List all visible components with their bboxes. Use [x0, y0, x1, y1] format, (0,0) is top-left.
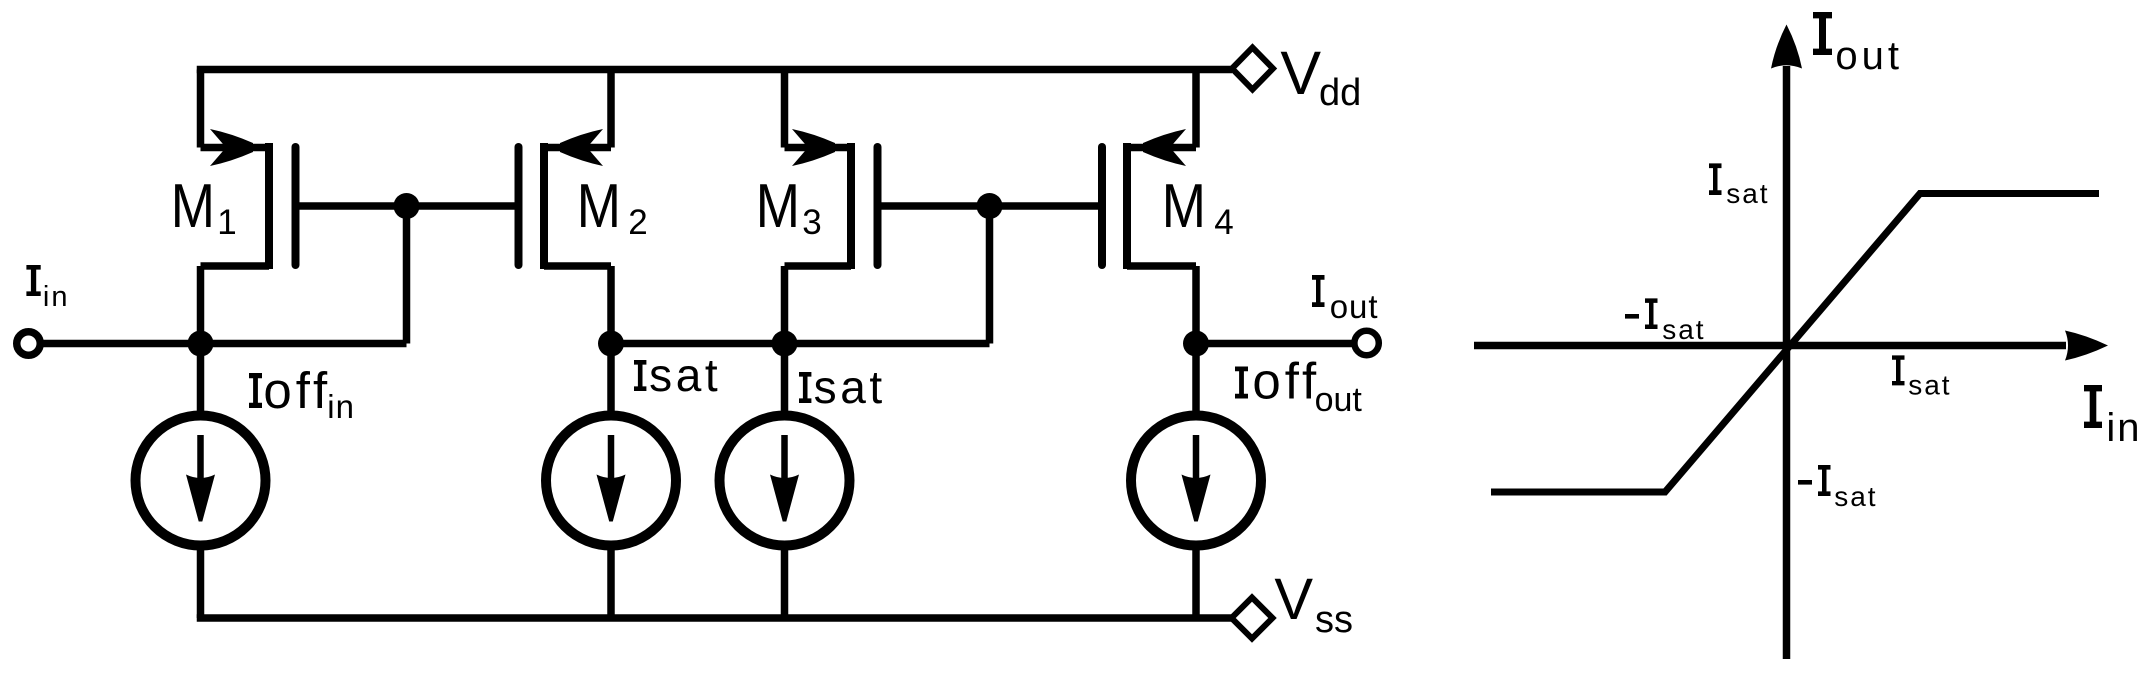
svg-text:M: M	[577, 172, 621, 241]
current source Isat M2	[546, 344, 676, 619]
power Vss diamond	[1232, 598, 1273, 639]
svg-text:1: 1	[217, 203, 236, 242]
node output junction	[1183, 331, 1209, 357]
wire Vdd top rail	[197, 66, 1232, 74]
svg-text:V: V	[1274, 567, 1313, 632]
wire input to gate corner	[40, 340, 407, 348]
graph label Isat right	[1892, 355, 1952, 400]
graph transfer curve	[1491, 194, 2099, 493]
svg-text:sat: sat	[814, 361, 886, 413]
current source Ioff_in	[136, 344, 266, 619]
svg-text:out: out	[1835, 34, 1903, 78]
svg-text:out: out	[1315, 381, 1363, 419]
label Vss	[1274, 567, 1353, 641]
label Isat M3	[799, 361, 886, 413]
node gate M3/M4 junction	[977, 193, 1003, 219]
label Ioff_in	[249, 362, 355, 425]
terminal input open circle	[17, 332, 41, 356]
svg-text:dd: dd	[1319, 72, 1361, 114]
label Vdd	[1280, 39, 1361, 114]
wire gate M1-M2	[296, 202, 519, 210]
svg-text:M: M	[171, 172, 215, 241]
svg-text:sat: sat	[1908, 370, 1951, 401]
graph label -Isat lower	[1798, 465, 1878, 512]
power Vdd diamond	[1232, 48, 1273, 90]
svg-text:3: 3	[802, 203, 821, 242]
svg-text:sat: sat	[1726, 178, 1769, 209]
label M1	[171, 172, 237, 242]
svg-text:in: in	[2106, 406, 2141, 450]
transistor M3	[785, 70, 878, 344]
label M2	[577, 172, 648, 242]
svg-text:sat: sat	[649, 349, 721, 401]
node input junction	[188, 331, 214, 357]
label Iout output	[1312, 275, 1379, 325]
graph x-axis Iin	[1474, 331, 2108, 361]
svg-text:sat: sat	[1662, 314, 1705, 345]
label Iin input	[26, 265, 69, 313]
svg-text:out: out	[1330, 288, 1379, 325]
transistor M4	[1102, 70, 1196, 344]
node M3 drain	[772, 331, 798, 357]
svg-text:2: 2	[628, 203, 647, 242]
svg-text:M: M	[1162, 172, 1206, 241]
terminal output open circle	[1354, 331, 1378, 355]
svg-text:sat: sat	[1834, 481, 1877, 512]
transistor M2	[519, 70, 612, 344]
svg-text:ss: ss	[1315, 599, 1353, 641]
wire Vss bottom rail	[197, 614, 1232, 622]
svg-text:in: in	[43, 281, 70, 313]
graph y-axis Iout	[1771, 25, 1802, 660]
label Isat M2	[634, 349, 721, 401]
label Ioff_out	[1235, 353, 1362, 420]
current source Ioff_out	[1131, 344, 1261, 619]
graph label -Isat left	[1625, 298, 1706, 345]
svg-text:M: M	[756, 172, 800, 241]
svg-text:off: off	[1252, 353, 1320, 410]
label M4	[1162, 172, 1234, 242]
label M3	[756, 172, 822, 242]
wire gate node to input node	[403, 206, 411, 344]
graph label Iin	[2084, 385, 2142, 450]
node gate M1/M2 junction	[394, 193, 420, 219]
svg-text:4: 4	[1214, 203, 1233, 242]
graph label Isat upper	[1709, 163, 1770, 209]
svg-text:off: off	[263, 362, 331, 419]
wire gate M3-M4	[878, 202, 1103, 210]
node M2 drain	[598, 331, 624, 357]
wire output	[1196, 340, 1355, 348]
transistor M1	[201, 70, 296, 344]
wire gate node down	[986, 206, 994, 344]
svg-text:in: in	[327, 388, 355, 425]
current source Isat M3	[720, 344, 850, 619]
svg-text:V: V	[1280, 39, 1321, 107]
graph label Iout	[1813, 12, 1903, 78]
wire Isat node row	[611, 340, 990, 348]
